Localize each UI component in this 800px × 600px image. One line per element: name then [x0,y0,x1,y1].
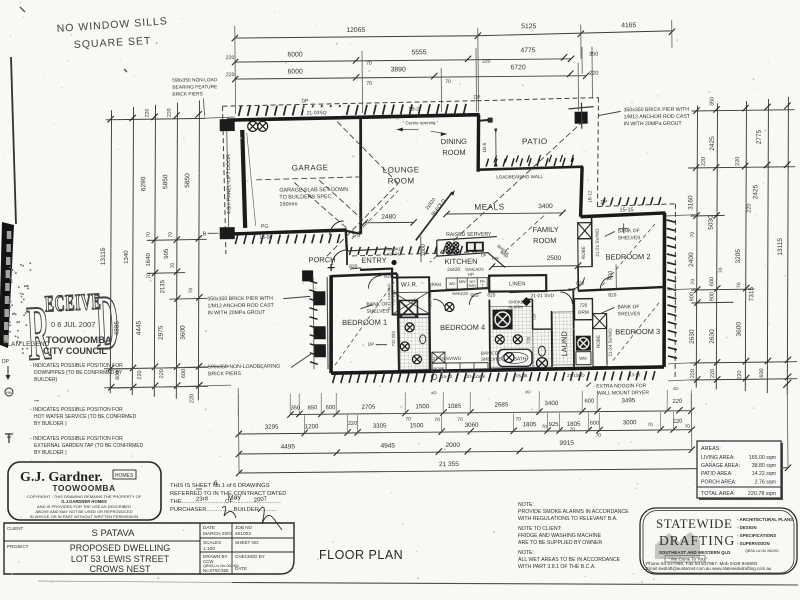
bed1 dashed ceiling diagonal [334,281,396,366]
statewide drafting rounded box outer [640,508,797,574]
wc toilet and fan [538,346,545,356]
wc tiled grid right [533,329,552,367]
hatching above loadbearing wall [486,159,489,167]
bed4 robe boxes bottom [432,363,488,373]
homes small box [113,470,136,479]
left chain extension lines to plan [110,366,229,369]
scan bottom paper edge line [38,581,232,583]
garage ceiling fans circles [248,121,258,131]
bath wc tiled grid left [489,306,533,367]
paper grain overlay [0,0,1,1]
window label 21-03SQ garage top [304,107,342,116]
kitchen lower cabinets row [429,288,499,292]
right dimension chain verticals [694,106,701,388]
wall right side bedrooms 2 and 3 [663,213,666,367]
patio corner brick pier 350x350 [575,112,588,124]
wall garage bottom [228,230,347,234]
bed4 door arc [433,299,445,311]
family diag dash [505,215,545,251]
garage dashed roof diagonals [294,182,346,228]
eave dashed right side of bedrooms [597,204,675,207]
statewide watermark house [655,532,700,559]
bed4 fans [445,302,454,311]
bottom chain risers [237,394,240,416]
wall garage right divider [360,118,362,234]
bed2 bed3 divider wall [578,287,665,291]
GJ Gardner rounded box [8,462,161,520]
areas box total divider [697,486,781,488]
bifold door diagonal wall [415,192,452,240]
bed1 right wall [397,273,399,370]
eave dashed outline patio right [596,98,599,207]
brick hatching right wall [667,220,676,223]
garage panel-lift door bar [242,130,245,228]
bottom dimension chain row D 21355 [239,468,788,473]
bed4 robe X left [432,352,445,363]
bed2 wall left lower [591,217,593,267]
ensuite shower xbox [399,300,417,317]
legend hot water symbol [5,388,13,396]
laundry tiled floor [553,312,575,365]
garage corner splay [347,231,361,234]
wall garage and lounge top [227,115,480,120]
top chain risers row2 row3 [361,51,364,113]
leader line to patio pier [599,111,621,115]
porch front hatching [349,247,352,255]
break bar diagonal edge [488,252,505,267]
WIR wardrobe X shelving [393,292,428,313]
laundry door arc [560,292,572,304]
left chain tick marks [107,116,113,122]
bath tub [498,349,532,366]
table right rows [200,537,294,539]
right chain cross ties and ticks [692,110,795,111]
ensuite toilet [420,335,426,344]
kitchen cooktop circles [446,242,452,248]
linen cupboard box [489,275,546,292]
robe bed3 strip [593,314,608,367]
bottom dimension chain row A [290,411,691,415]
garage pier bottom-left [220,227,235,239]
legend tap symbol [8,434,10,443]
front verandah pier 3 [314,344,326,357]
wall bedroom1 top / entry south [331,274,397,277]
stamp dotted shading noise [15,272,17,274]
signature scribbles [222,506,236,518]
statewide drafting rounded box inner [643,511,794,574]
right chain extension lines to plan [667,215,697,216]
laundry trough [576,336,591,351]
entry door arc [332,250,347,265]
council stamp RECEIVED group [25,278,121,376]
garage pier top-left [220,119,235,131]
dining window arrows vertical [494,129,497,134]
WIR walls [392,277,429,314]
bath walls [488,300,491,370]
porch pier black [302,270,313,281]
bottom dimension chain row B [239,430,692,434]
entry rear wall [360,269,393,270]
porch eave dashed line [352,252,480,256]
garage slab dashed line [256,177,361,180]
bath shower xbox dark [492,309,512,329]
robe bed2 outline [578,239,592,267]
hatch left verandah [309,281,317,284]
bed1 door arc [368,276,381,289]
laundry left wall [572,291,575,367]
porch step lines [347,249,392,251]
family door arc [568,275,584,291]
verandah edge line [326,277,329,369]
top dimension chain row1 12065 5125 4165 [235,36,478,38]
scan edge diagonal line top-left [11,57,16,224]
brick hatching above top wall [239,106,242,116]
lounge door arc [330,221,344,235]
window 15-15 bedroom2 top hatching [602,198,605,206]
wall patio left / dining [478,115,480,172]
front verandah pier 2 [314,326,326,339]
scan speckle noise [647,510,648,511]
client project table outline [4,523,294,574]
eave dashed outline left of garage [223,106,226,254]
dining pier wall detail [480,120,492,121]
meals long dashed roof diagonal [429,121,585,262]
underline sheet no 1 [196,488,202,490]
bed3 dashed ceiling diagonal [612,301,661,360]
brick hatching below bottom wall [333,374,336,383]
patio door hatch marks [494,156,497,163]
top chain risers row1 [234,26,237,114]
bed4 left wall [428,291,431,370]
garage interior diagonal [247,133,256,226]
scan mark top-left corner [20,7,25,12]
broom cupboard 720 BRM [574,299,592,320]
leader from note to garage pier [203,98,204,116]
front verandah pier 1 [313,291,325,305]
left dimension chain verticals [108,110,115,393]
top dimension chain row3 6000 3890 6720 220 [235,76,586,79]
wall bedroom2 top [581,213,666,217]
bed2 dashed ceiling diagonal [602,222,658,286]
eave dashed outline top [222,101,476,106]
robe bedroom2 box with X [578,223,592,239]
scan edge dark band with rotated page text [0,222,14,348]
porch tap cross symbol [330,264,332,271]
laundry WM box [576,352,591,365]
wall patio bottom loadbearing [478,167,583,170]
hatching below garage bottom wall [235,235,238,244]
ensuite fan circles [405,323,414,332]
wall bedroom1 left [330,275,332,373]
wall bottom of house [331,367,664,373]
lounge hip roof dashed diagonals [326,183,399,256]
top dimension chain row2 6000 5555 4775 350 [235,59,571,62]
eave dashed outline patio top [476,98,598,101]
areas box [697,441,781,498]
bath fan circles [495,335,504,344]
table vertical divider right columns [199,523,201,574]
table horizontal divider client project [4,540,200,542]
left chain cross ties [106,118,206,119]
areas box shadow [699,443,783,500]
wall family room left vertical [580,167,582,217]
wall porch stub [346,230,347,251]
kitchen sink unit dark [466,242,484,252]
bottom dimension chain row C [239,450,692,454]
